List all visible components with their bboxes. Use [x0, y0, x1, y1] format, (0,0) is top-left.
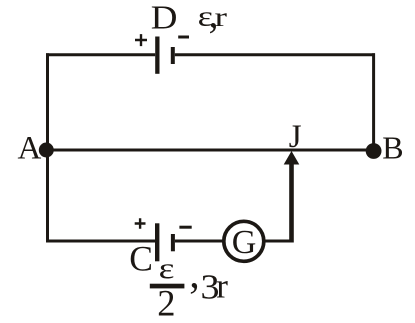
wire middle horizontal (node A to node B): [46, 149, 374, 152]
svg-text:D: D: [151, 0, 178, 37]
battery C value fraction bar: [150, 284, 185, 289]
wire left vertical (top corner through node A to bottom corner): [46, 53, 49, 242]
battery C plus sign: [135, 218, 146, 229]
battery C positive plate: [155, 223, 159, 261]
svg-text:ε: ε: [159, 252, 175, 285]
svg-text:B: B: [382, 130, 403, 166]
wire right vertical (top corner down to node B): [372, 53, 375, 151]
battery D positive plate: [155, 37, 159, 74]
jockey arrow shaft: [289, 163, 294, 243]
svg-text:J: J: [289, 119, 302, 155]
battery D plus sign: [135, 34, 147, 46]
wire galvanometer to jockey corner: [265, 240, 292, 243]
svg-text:2: 2: [157, 283, 175, 318]
jockey arrowhead: [284, 151, 300, 165]
wire top-right segment (battery D negative plate to top-right corner): [175, 53, 375, 56]
svg-text:,: ,: [189, 252, 200, 298]
battery C minus sign: [179, 226, 191, 229]
battery C negative plate: [171, 234, 175, 251]
svg-text:r: r: [215, 2, 228, 32]
battery D minus sign: [178, 36, 189, 39]
svg-text:A: A: [18, 131, 42, 167]
wire battery C negative plate to galvanometer: [175, 240, 223, 243]
svg-text:G: G: [232, 224, 257, 261]
battery D negative plate: [171, 47, 175, 64]
node A dot: [39, 143, 54, 158]
svg-text:C: C: [129, 239, 153, 279]
node B dot: [366, 143, 382, 159]
svg-text:r: r: [216, 267, 228, 306]
galvanometer G circle: [224, 221, 264, 261]
wire top-left segment (top corner to battery D positive plate): [46, 53, 155, 56]
wire bottom-left segment (left corner to battery C positive plate): [46, 240, 155, 243]
